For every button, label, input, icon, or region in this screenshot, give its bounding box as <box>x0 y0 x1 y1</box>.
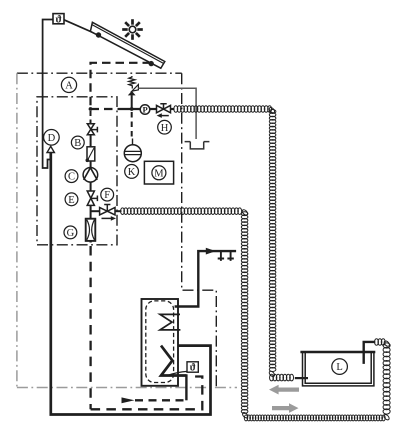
tub inlet stub (left) <box>295 377 308 379</box>
svg-text:ϑ: ϑ <box>190 362 196 373</box>
wire tee to valve F <box>91 210 100 212</box>
control unit box M <box>144 161 173 184</box>
lower coil heat exchanger <box>161 346 186 376</box>
wire <box>171 108 175 110</box>
wire safety valve riser <box>131 95 133 109</box>
node G <box>64 226 77 239</box>
svg-text:K: K <box>128 167 136 178</box>
node K <box>125 165 139 179</box>
svg-text:A: A <box>65 80 73 91</box>
wire coil to bottom elbow <box>185 374 187 400</box>
corrugated pipe corner rings <box>268 107 275 114</box>
node F <box>101 188 114 201</box>
corrugated pipe down right of tank (vertical) <box>241 212 248 216</box>
DHW outlet pipe from tank <box>175 251 237 306</box>
corrugated pipe stub at tub top right <box>375 339 379 346</box>
svg-text:H: H <box>161 123 169 134</box>
wire junction to valve B (dashed) <box>90 111 92 124</box>
wire main line solid segment <box>118 108 141 110</box>
tank inner wall (dashed) <box>146 301 174 383</box>
pump C (circulation pump) <box>83 168 98 183</box>
wire to expansion vessel (dashed) <box>131 112 133 140</box>
svg-text:L: L <box>336 362 342 373</box>
wire <box>150 108 157 110</box>
boundary box A left edge (gray) <box>16 73 18 387</box>
svg-text:P: P <box>142 105 147 115</box>
cold water inlet arrow D <box>47 146 54 152</box>
wire <box>90 182 92 191</box>
node E <box>65 193 78 206</box>
collector connection node (bottom) <box>149 61 154 66</box>
discharge funnel <box>185 142 210 149</box>
node M <box>152 166 166 180</box>
wire from sensor T1 down left side <box>43 20 53 169</box>
corrugated pipe from valve F (horizontal) <box>121 208 125 215</box>
boundary box A bottom edge (gray) <box>17 387 237 389</box>
wire vessel stem <box>132 139 134 146</box>
flow meter <box>86 147 95 162</box>
svg-text:E: E <box>68 195 74 206</box>
node D <box>44 130 60 146</box>
flow direction arrow (gray, right) <box>272 406 290 410</box>
wire <box>115 210 122 212</box>
pressure gauge P <box>140 105 150 115</box>
svg-text:M: M <box>154 168 164 179</box>
valve E (shut-off valve) <box>87 191 97 205</box>
svg-text:F: F <box>104 190 110 201</box>
boundary box A top edge <box>17 72 182 74</box>
solar flow pipe from collector (dashed) <box>91 63 152 107</box>
flow direction arrow (gray, left) <box>278 388 299 392</box>
flow arrow on DHW pipe <box>206 248 216 255</box>
bath tub walls <box>303 352 374 386</box>
solar supply pipe (dashed) to junction <box>91 108 119 110</box>
cold water pipe down left <box>51 153 211 415</box>
node B <box>71 136 84 149</box>
flow arrow at valve H <box>160 115 169 117</box>
control line loop (dashed) <box>91 377 203 410</box>
heat exchanger G <box>86 219 96 241</box>
storage tank <box>142 299 179 386</box>
wire sensor T2 to tank <box>168 371 188 375</box>
safety valve <box>128 76 139 95</box>
tub inlet pipe (right) <box>364 342 376 364</box>
node H <box>158 120 172 134</box>
solar flow into coil (dashed with arrow) <box>135 399 186 401</box>
valve F (three-way filling valve) <box>100 205 115 215</box>
node C <box>65 170 78 183</box>
svg-text:B: B <box>74 138 81 149</box>
expansion vessel K <box>124 145 141 162</box>
wire <box>90 161 92 168</box>
wire from sensor T1 to collector <box>64 20 99 35</box>
svg-text:C: C <box>68 172 75 183</box>
corrugated pipe from valve H (horizontal) <box>174 106 178 113</box>
wire <box>90 205 92 218</box>
sun symbol <box>122 19 143 40</box>
cold water connection symbols <box>218 251 234 261</box>
bath tub rim <box>300 351 375 354</box>
solar collector panel <box>90 22 164 68</box>
svg-text:G: G <box>67 228 75 239</box>
valve H (fill/drain valve) <box>157 104 171 113</box>
safety valve discharge pipe <box>138 88 196 139</box>
corrugated pipe up to tub right inlet (vertical) <box>383 343 390 348</box>
corrugated pipe along bottom (horizontal) <box>244 415 247 421</box>
svg-text:D: D <box>48 133 56 144</box>
sensor box T2 (tank temperature sensor) <box>187 362 198 374</box>
junction at collector downpipe <box>89 107 93 111</box>
junction at safety valve branch <box>130 107 134 111</box>
sensor box T1 (collector temperature sensor) <box>53 14 64 26</box>
flow arrow at valve F <box>102 217 112 219</box>
inner boundary box (solar station) <box>37 97 117 245</box>
corrugated pipe elbow to tub left inlet <box>270 374 274 381</box>
collector connection node (top) <box>96 32 101 37</box>
solar return pipe below G (dashed) <box>89 241 91 409</box>
valve B (shut-off valve) <box>87 124 97 135</box>
upper coil heat exchanger <box>160 314 180 330</box>
corrugated pipe down to tub (vertical) <box>269 110 276 114</box>
svg-text:ϑ: ϑ <box>55 14 61 25</box>
wire <box>90 135 92 147</box>
boundary box A right edge with step <box>182 73 217 387</box>
node A <box>61 77 76 92</box>
node L <box>332 359 348 375</box>
